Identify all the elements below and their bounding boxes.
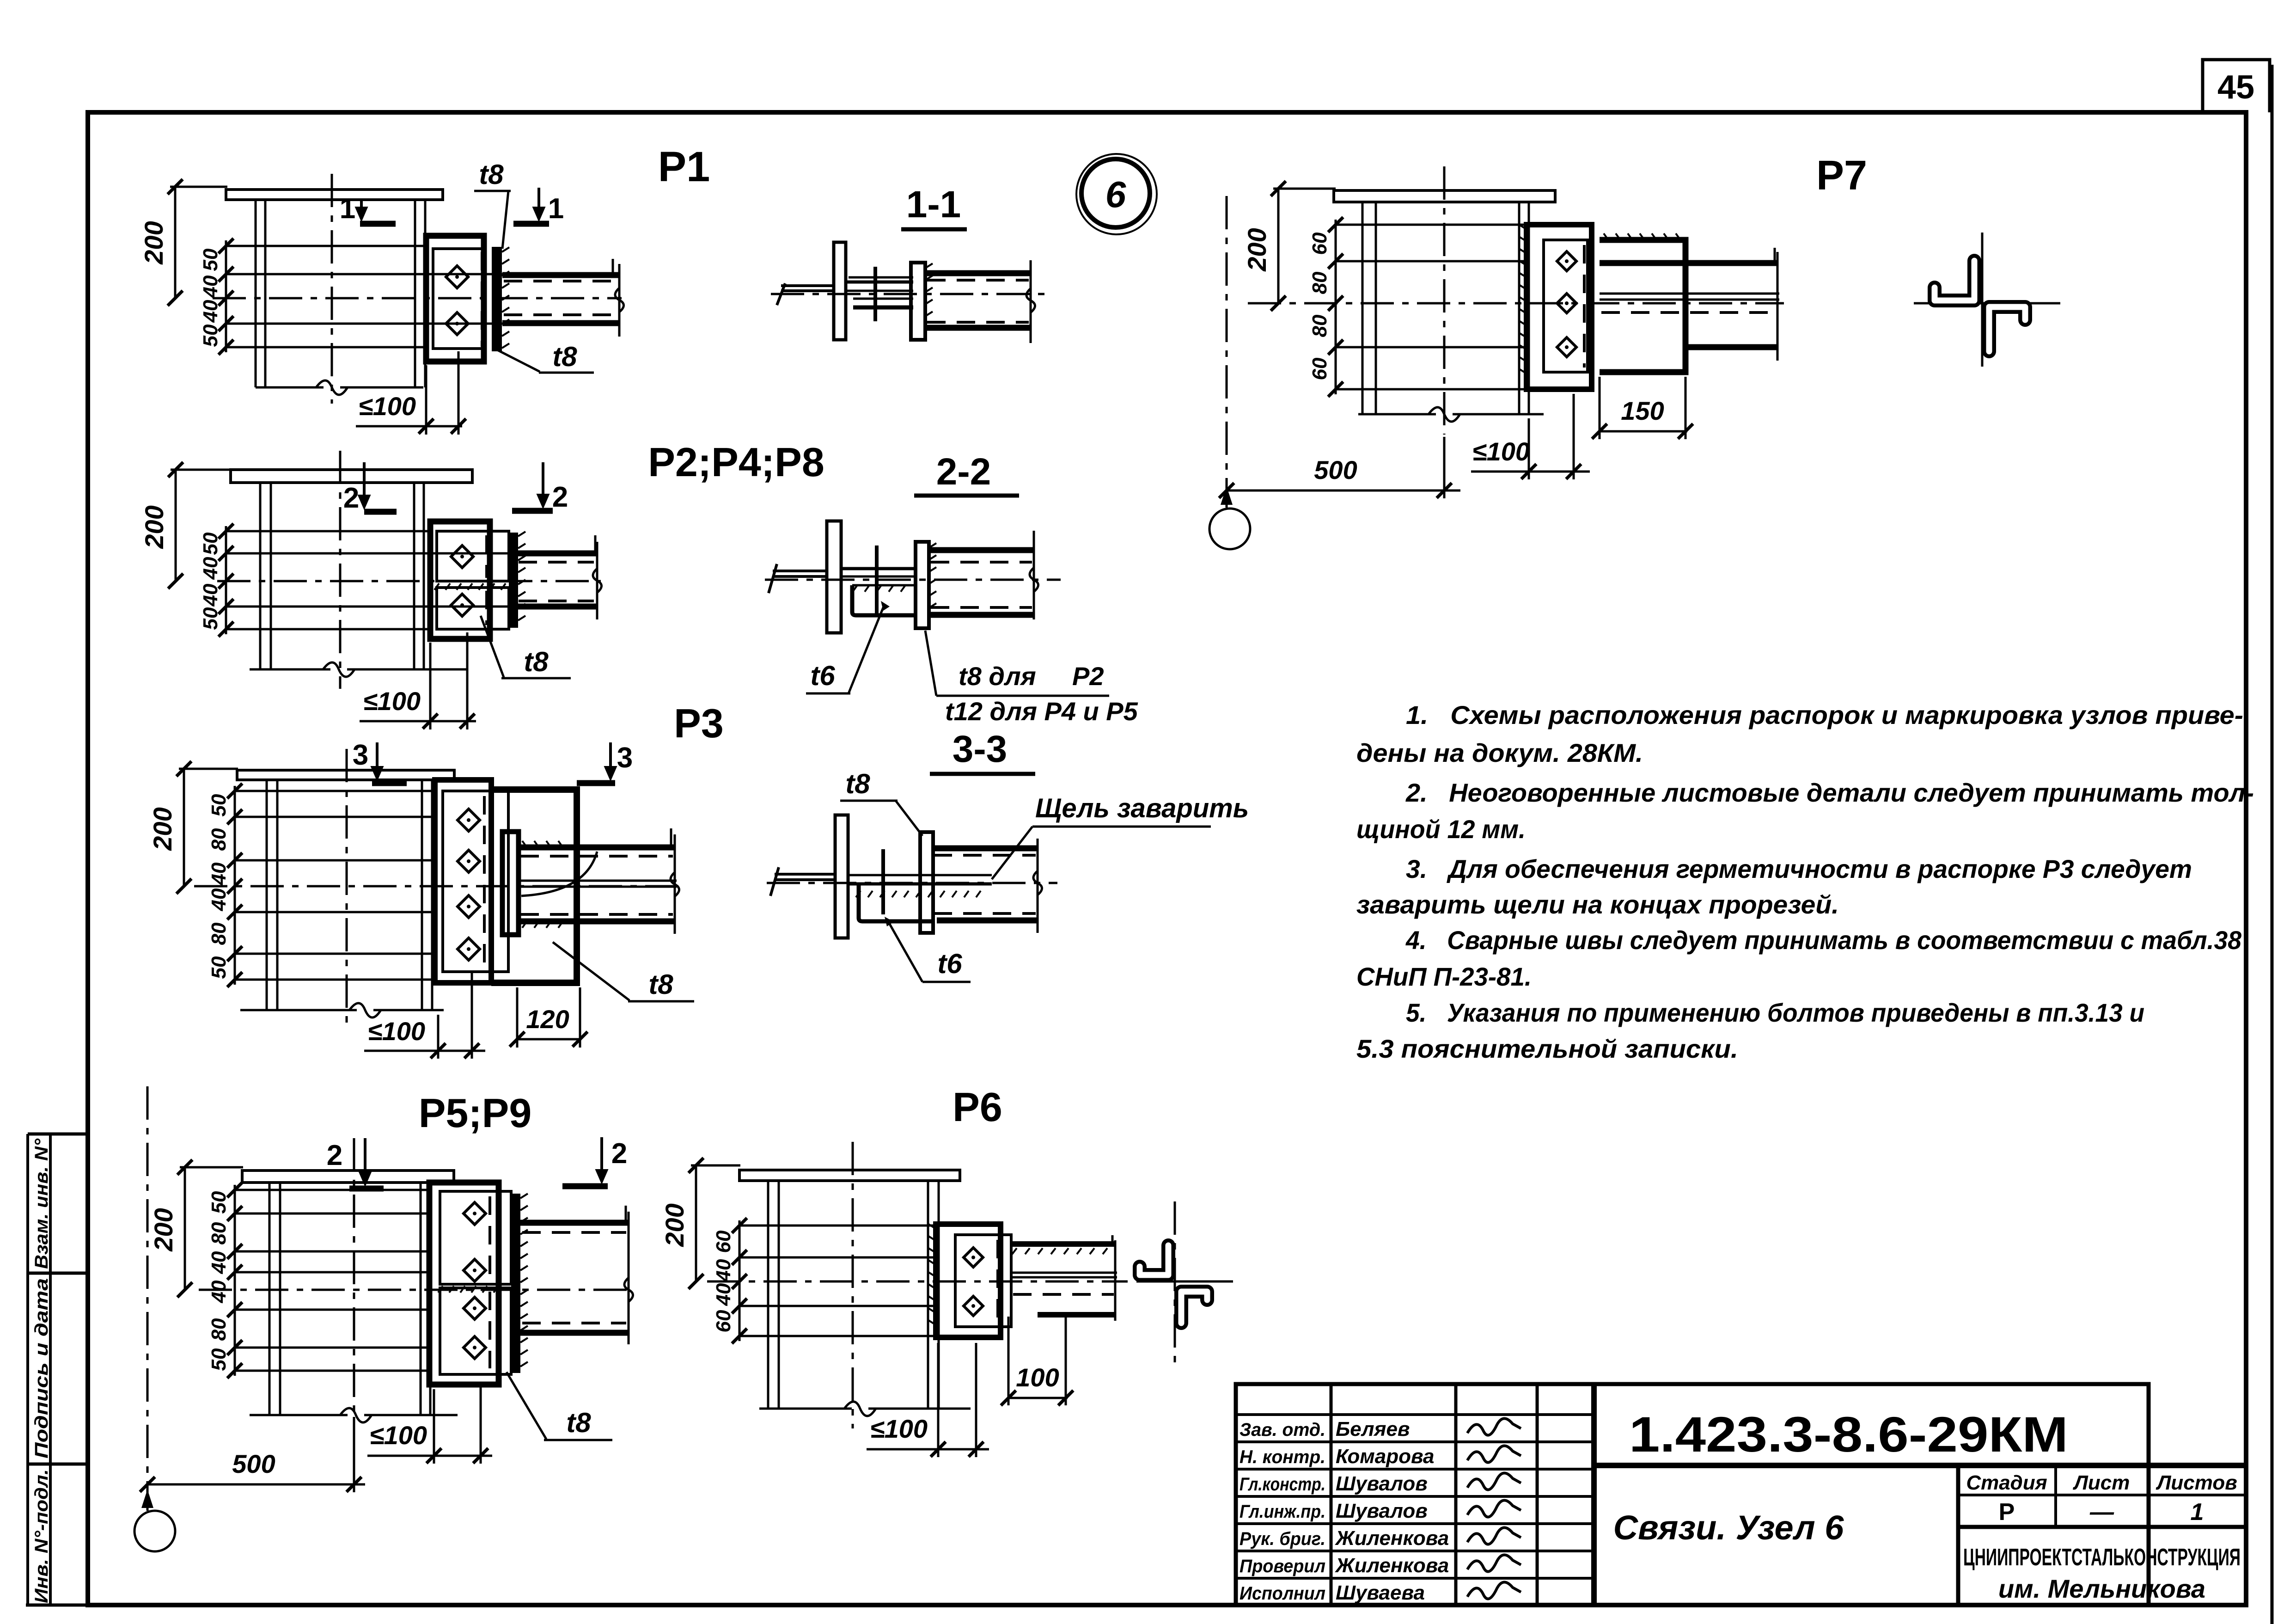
2-2 brace beam [929, 547, 1034, 553]
P3 bolt 4 [458, 938, 480, 960]
P2 bolt plates inner two [437, 531, 509, 581]
P7 column center line vertical [1443, 166, 1446, 435]
3-3 weld ticks under gusset [856, 891, 861, 897]
svg-text:200: 200 [1242, 228, 1271, 271]
P7 bolt 2 [1557, 294, 1576, 313]
svg-text:Стадия: Стадия [1966, 1471, 2047, 1494]
svg-text:щиной 12 мм.: щиной 12 мм. [1356, 815, 1526, 844]
P3 gusset plate outer [435, 780, 491, 983]
2-2 lower cleat plate t6 [852, 585, 914, 615]
svg-text:60: 60 [1308, 357, 1331, 380]
P3 section mark 3 left [372, 780, 407, 786]
2-2 center axis [765, 579, 1061, 581]
svg-text:Исполнил: Исполнил [1240, 1583, 1325, 1604]
P3 column right flange [421, 780, 423, 1010]
svg-text:заварить щели на концах прорез: заварить щели на концах прорезей. [1356, 890, 1839, 919]
svg-text:2. Неоговоренные листовые де: 2. Неоговоренные листовые детали следует… [1405, 778, 2254, 807]
1-1 weld ticks [925, 264, 933, 268]
svg-text:50: 50 [208, 1191, 230, 1213]
svg-text:1: 1 [340, 193, 355, 225]
P5 column bottom break line [250, 1414, 348, 1416]
P7 beam center axis [1248, 302, 1784, 305]
P7 dimension le100 [1471, 471, 1590, 473]
P3 hidden bolt line [483, 796, 486, 966]
svg-text:40: 40 [712, 1259, 735, 1282]
svg-text:150: 150 [1621, 396, 1664, 425]
2-2 weld ticks [929, 543, 936, 548]
P1 bolt bottom [446, 313, 468, 335]
P7 weld ticks on gusset top [1604, 233, 1608, 240]
P1 end plate with welds [492, 247, 502, 351]
2-2 gusset plate [841, 567, 914, 570]
P7 gusset left edge welds [1519, 225, 1527, 229]
P1 brace beam [502, 272, 619, 278]
P1 bolt plate inner [433, 249, 485, 349]
svg-text:им. Мельникова: им. Мельникова [1998, 1574, 2205, 1603]
P3 extension lines [235, 790, 435, 792]
title block names table rows [1236, 1413, 1594, 1416]
P1 beam end break [618, 264, 621, 337]
3-3 gusset plate [849, 874, 992, 876]
svg-text:50: 50 [208, 1348, 230, 1371]
P6 column center line vertical [852, 1142, 854, 1428]
P1 dimension line 50-40-40-50 [225, 240, 227, 352]
svg-text:2-2: 2-2 [936, 451, 991, 493]
P1 section mark 1 right [513, 221, 549, 227]
svg-text:Взам. инв. N°: Взам. инв. N° [31, 1138, 52, 1269]
P5 brace beam [520, 1220, 629, 1226]
P2 dimension le100 [360, 720, 476, 723]
3-3 column flange plate [835, 815, 848, 938]
P5 axis bubble [134, 1511, 175, 1551]
P6 brace angle [1011, 1241, 1115, 1247]
svg-text:≤100: ≤100 [870, 1414, 928, 1443]
P5 dimension 200 [184, 1167, 186, 1290]
svg-text:40: 40 [199, 300, 222, 323]
svg-text:200: 200 [139, 221, 168, 264]
svg-text:Шувалов: Шувалов [1336, 1472, 1428, 1495]
P7 extension lines [1336, 224, 1527, 226]
3-3 bolt [881, 849, 885, 914]
P7 dimension 150 [1600, 430, 1687, 433]
svg-text:Беляев: Беляев [1336, 1418, 1410, 1440]
P2 column right flange [413, 483, 415, 669]
P2 beam center axis [217, 580, 601, 582]
P7 dimension 200 [1277, 189, 1280, 303]
P6 column left flange [767, 1181, 769, 1409]
P7 column axis extension [1226, 196, 1228, 508]
1-1 column flange plate [834, 242, 846, 340]
P3 column left flange [266, 780, 268, 1010]
1-1 bolt [873, 267, 877, 321]
1-1 center axis [771, 293, 1050, 295]
svg-text:80: 80 [1308, 314, 1331, 337]
P7 dimension 500 [1227, 490, 1460, 492]
P1 dimension 200 [174, 187, 177, 298]
P3 slot curve [521, 852, 597, 896]
svg-text:200: 200 [660, 1203, 689, 1247]
P3 bolt 3 [458, 895, 480, 918]
svg-text:Зав. отд.: Зав. отд. [1240, 1420, 1325, 1440]
svg-text:1: 1 [548, 193, 564, 225]
svg-text:40: 40 [208, 888, 230, 911]
P6 angles cross symbol [1174, 1201, 1176, 1366]
svg-text:200: 200 [149, 1208, 178, 1251]
P2 hidden bolt line [485, 535, 488, 578]
P5 bolt 1 [464, 1202, 486, 1225]
P1 column left flange [255, 200, 257, 387]
P5 gusset plates outer [429, 1183, 499, 1385]
P6 dimension line 60-40-40-60 [739, 1220, 741, 1341]
svg-text:≤100: ≤100 [359, 392, 416, 421]
svg-text:80: 80 [208, 922, 230, 945]
P3 weld ticks on gusset [522, 841, 527, 847]
P6 dimension 200 [695, 1165, 697, 1281]
P5 end plate with welds [511, 1194, 520, 1373]
P1 beam center axis [213, 297, 622, 300]
svg-text:200: 200 [148, 807, 177, 851]
P1 hidden bolt line [481, 252, 483, 347]
svg-text:Р5;Р9: Р5;Р9 [419, 1090, 532, 1136]
P3 bolt 2 [458, 850, 480, 872]
P2 gusset plates outer [430, 521, 490, 639]
svg-text:Гл.констр.: Гл.констр. [1240, 1474, 1325, 1495]
P2 bolt bottom [451, 594, 473, 616]
P7 column right flange [1518, 202, 1520, 414]
document number box [1594, 1463, 2246, 1468]
P1 column center line vertical [331, 174, 333, 404]
P6 dimension 100 [1008, 1397, 1068, 1399]
P7 axis bubble [1209, 509, 1250, 549]
P5 column center line vertical [353, 1138, 355, 1433]
svg-text:≤100: ≤100 [368, 1017, 425, 1046]
P5 column right flange [420, 1183, 422, 1415]
P5 beam end break [628, 1212, 630, 1344]
2-2 beam end break [1033, 531, 1035, 619]
svg-text:t8: t8 [479, 159, 504, 190]
P6 hidden bolt line [996, 1240, 999, 1322]
svg-text:≤100: ≤100 [1472, 437, 1530, 466]
3-3 t8 slot plate [920, 832, 933, 933]
P6 bolt plate inner [955, 1235, 1011, 1327]
1-1 beam end break [1030, 260, 1032, 343]
svg-text:80: 80 [208, 1318, 230, 1341]
svg-text:3: 3 [617, 742, 633, 774]
P7 bolt 1 [1557, 251, 1576, 271]
svg-text:60: 60 [712, 1310, 735, 1332]
svg-text:40: 40 [199, 557, 222, 580]
P2 dimension line 50-40-40-50 [225, 526, 227, 634]
svg-text:40: 40 [208, 862, 230, 885]
svg-text:t8: t8 [566, 1407, 591, 1438]
P2 column center line vertical [339, 451, 342, 689]
P1 bolt top [446, 266, 468, 288]
svg-text:1.423.3-8.6-29КМ: 1.423.3-8.6-29КМ [1629, 1406, 2068, 1462]
P3 dimension line 50-80-40-40-80-50 [234, 786, 236, 985]
P7 gusset plate outer [1527, 225, 1592, 389]
stadiya list listov table [1956, 1465, 1960, 1605]
P6 gusset plate outer [936, 1224, 1001, 1337]
P2 end plate with welds [509, 533, 518, 628]
svg-text:Р2: Р2 [1072, 662, 1104, 691]
svg-text:50: 50 [199, 532, 222, 555]
P6 bolt bottom [964, 1296, 983, 1316]
svg-text:Шуваева: Шуваева [1336, 1581, 1425, 1604]
P6 column bottom break line [759, 1408, 852, 1410]
P7 column left flange [1362, 202, 1364, 414]
svg-text:40: 40 [199, 583, 222, 607]
svg-text:Щель заварить: Щель заварить [1035, 793, 1249, 823]
1-1 brace beam [925, 270, 1031, 276]
P2 extension lines [226, 530, 430, 533]
P3 column center line vertical [346, 749, 348, 1031]
svg-text:500: 500 [1314, 455, 1357, 484]
P7 big gusset plate [1600, 240, 1685, 372]
svg-text:1-1: 1-1 [906, 184, 961, 226]
svg-text:t6: t6 [937, 948, 962, 979]
svg-text:40: 40 [208, 1251, 230, 1274]
P6 column cap plate [739, 1170, 960, 1181]
svg-text:t8: t8 [648, 969, 673, 1000]
P5 section mark 2 right [562, 1183, 608, 1189]
P2 column bottom break line [250, 668, 330, 671]
svg-text:t8 для: t8 для [959, 662, 1036, 691]
P5 beam center axis [199, 1289, 633, 1291]
P3 section mark 3 right [577, 780, 615, 786]
svg-text:50: 50 [208, 794, 230, 816]
svg-text:5. Указания по применению бо: 5. Указания по применению болтов приведе… [1406, 998, 2144, 1027]
3-3 column web left [775, 873, 835, 876]
P5 bolt 2 [464, 1259, 486, 1281]
svg-text:80: 80 [208, 828, 230, 851]
svg-text:2: 2 [611, 1138, 627, 1170]
svg-text:Н. контр.: Н. контр. [1240, 1447, 1325, 1467]
svg-text:СНиП П-23-81.: СНиП П-23-81. [1356, 962, 1532, 991]
svg-text:Листов: Листов [2156, 1471, 2237, 1494]
svg-text:200: 200 [140, 505, 169, 549]
svg-text:Шувалов: Шувалов [1336, 1500, 1428, 1522]
P5 mid seam welds [438, 1286, 443, 1293]
P3 column bottom break line [240, 1009, 357, 1011]
svg-text:1. Схемы расположения распор: 1. Схемы расположения распорок и маркиро… [1406, 700, 2243, 729]
svg-text:Подпись и дата: Подпись и дата [31, 1278, 52, 1459]
P1 column cap plate [226, 190, 443, 200]
svg-text:1: 1 [2191, 1499, 2204, 1526]
P7 bolt 3 [1557, 337, 1576, 357]
P5 bolt 3 [464, 1297, 486, 1319]
3-3 brace beam [932, 846, 1038, 852]
svg-text:50: 50 [199, 248, 222, 271]
svg-text:—: — [2089, 1499, 2114, 1526]
svg-text:Рук. бриг.: Рук. бриг. [1240, 1529, 1325, 1549]
P7 bolt plate inner [1544, 240, 1588, 372]
svg-text:Связи. Узел 6: Связи. Узел 6 [1613, 1508, 1844, 1547]
sheet number box 45 [2203, 60, 2270, 112]
P2 brace beam [517, 551, 596, 557]
2-2 column flange plate [827, 521, 841, 633]
svg-text:Р6: Р6 [953, 1084, 1002, 1130]
P2 mid seam welds [434, 583, 439, 590]
P3 column cap plate [237, 770, 454, 780]
svg-text:80: 80 [1308, 271, 1331, 294]
P2 section mark 2 left [364, 509, 397, 515]
P7 angle end break [1777, 252, 1779, 361]
P5 extension lines [235, 1189, 429, 1191]
node bubble 6 [1081, 159, 1150, 227]
P7 angles cross symbol [1981, 233, 1984, 367]
svg-text:Комарова: Комарова [1336, 1445, 1435, 1468]
P3 bolt plate inner [443, 791, 508, 972]
svg-text:500: 500 [232, 1449, 275, 1478]
3-3 center axis [767, 882, 1057, 884]
P1 dimension le100 [356, 425, 462, 428]
P3 beam end break [674, 834, 676, 934]
P6 beam center axis [707, 1281, 1128, 1283]
P3 end plate [502, 832, 519, 935]
P3 dimension le100 [364, 1050, 485, 1052]
P1 column right flange [414, 200, 416, 387]
P7 dimension line 60-80-80-60 [1335, 220, 1337, 394]
svg-text:t8: t8 [524, 646, 549, 677]
P3 brace beam [519, 845, 675, 851]
svg-text:60: 60 [712, 1230, 735, 1253]
2-2 end plate [916, 542, 929, 628]
P7 column bottom break line [1358, 413, 1436, 416]
P3 dimension 120 [517, 1038, 581, 1041]
P1 gusset plate outer [426, 236, 484, 362]
svg-text:60: 60 [1308, 232, 1331, 255]
3-3 beam end break [1037, 839, 1039, 933]
1-1 column web left [781, 284, 834, 287]
P5 dimension 500 [147, 1483, 365, 1486]
svg-text:дены на докум. 28КМ.: дены на докум. 28КМ. [1356, 738, 1643, 767]
svg-text:Р: Р [1999, 1499, 2015, 1526]
svg-text:4. Сварные швы следует прини: 4. Сварные швы следует принимать в соотв… [1405, 925, 2242, 955]
2-2 column web left [773, 570, 827, 572]
svg-text:Инв. N°-подл.: Инв. N°-подл. [31, 1469, 52, 1603]
svg-text:Проверил: Проверил [1240, 1556, 1325, 1576]
3-3 t6 cleat plate [859, 884, 933, 921]
svg-text:Р3: Р3 [674, 700, 724, 746]
title block names table verticals [1330, 1384, 1333, 1605]
P1 section mark 1 left [360, 221, 396, 227]
left margin column boxes [26, 1134, 29, 1605]
P6 gusset left edge welds [928, 1224, 936, 1229]
svg-text:6: 6 [1105, 174, 1126, 215]
svg-text:2: 2 [343, 482, 359, 514]
svg-text:80: 80 [208, 1222, 230, 1244]
svg-text:t6: t6 [810, 660, 835, 691]
svg-text:Р2;Р4;Р8: Р2;Р4;Р8 [648, 439, 824, 485]
P1 column bottom break line [256, 386, 324, 389]
svg-text:50: 50 [208, 956, 230, 979]
svg-text:50: 50 [199, 607, 222, 630]
P5 hidden bolt line [489, 1196, 491, 1281]
P5 bolt 4 [464, 1336, 486, 1359]
svg-text:2: 2 [552, 481, 568, 513]
svg-text:40: 40 [712, 1283, 735, 1306]
svg-text:5.3 пояснительной записки.: 5.3 пояснительной записки. [1356, 1034, 1738, 1063]
P6 extension lines [739, 1225, 936, 1227]
svg-text:Гл.инж.пр.: Гл.инж.пр. [1240, 1501, 1325, 1522]
1-1 gusset plates [846, 281, 913, 284]
svg-text:2: 2 [327, 1140, 342, 1171]
2-2 bolt [875, 545, 879, 617]
svg-text:100: 100 [1016, 1363, 1059, 1392]
svg-text:45: 45 [2217, 69, 2254, 106]
svg-text:t8: t8 [845, 768, 870, 799]
svg-text:120: 120 [526, 1005, 569, 1034]
P2 section mark 2 right [512, 508, 553, 514]
title block signatures [1467, 1418, 1521, 1435]
title block outer [1236, 1384, 2149, 1605]
svg-text:Р1: Р1 [658, 143, 710, 190]
P5 section mark 2 left [349, 1186, 384, 1192]
svg-text:Жиленкова: Жиленкова [1335, 1527, 1449, 1550]
P2 dimension 200 [175, 470, 177, 581]
P5 bolt plates inner two [440, 1191, 511, 1284]
svg-text:40: 40 [199, 275, 222, 298]
P6 column right flange [927, 1181, 929, 1409]
svg-text:Р7: Р7 [1816, 153, 1867, 199]
P2 column left flange [259, 483, 262, 669]
P3 beam center axis [194, 885, 679, 888]
P6 dimension le100 [867, 1448, 989, 1451]
P5 dimension le100 [367, 1455, 492, 1457]
svg-text:50: 50 [199, 324, 222, 347]
P3 dimension 200 [183, 769, 185, 886]
P5 dimension line 50-80-40-40-80-50 [234, 1185, 236, 1376]
P2 column cap plate [231, 470, 472, 483]
P5 column axis extension [147, 1086, 149, 1511]
1-1 end plate [911, 263, 925, 340]
P7 hidden bolt line [1583, 245, 1586, 368]
P5 column left flange [269, 1183, 271, 1415]
P6 bolt top [964, 1248, 983, 1267]
P7 brace angle [1600, 260, 1777, 266]
outer right sheet line [2271, 65, 2274, 1624]
P3 big gusset plate [491, 790, 577, 983]
svg-text:ЦНИИПРОЕКТСТАЛЬКОНСТРУКЦИЯ: ЦНИИПРОЕКТСТАЛЬКОНСТРУКЦИЯ [1963, 1544, 2241, 1571]
P3 bolt 1 [458, 809, 480, 831]
svg-text:≤100: ≤100 [370, 1421, 427, 1450]
P5 column cap plate [242, 1171, 454, 1183]
P2 bolt top [451, 545, 473, 568]
svg-text:3. Для обеспечения герметичн: 3. Для обеспечения герметичности в распо… [1406, 854, 2192, 883]
svg-text:t8: t8 [552, 341, 577, 372]
svg-text:t12 для Р4 и Р5: t12 для Р4 и Р5 [945, 697, 1138, 726]
svg-text:Жиленкова: Жиленкова [1335, 1554, 1449, 1577]
P1 extension lines [226, 245, 427, 247]
svg-text:3: 3 [353, 739, 368, 771]
svg-text:Лист: Лист [2073, 1471, 2130, 1494]
P2 beam end break [596, 542, 598, 619]
svg-text:40: 40 [208, 1280, 230, 1303]
P6 angle end break [1114, 1240, 1117, 1321]
P7 column cap plate [1334, 190, 1555, 202]
svg-text:3-3: 3-3 [953, 728, 1008, 770]
svg-text:≤100: ≤100 [363, 686, 421, 716]
